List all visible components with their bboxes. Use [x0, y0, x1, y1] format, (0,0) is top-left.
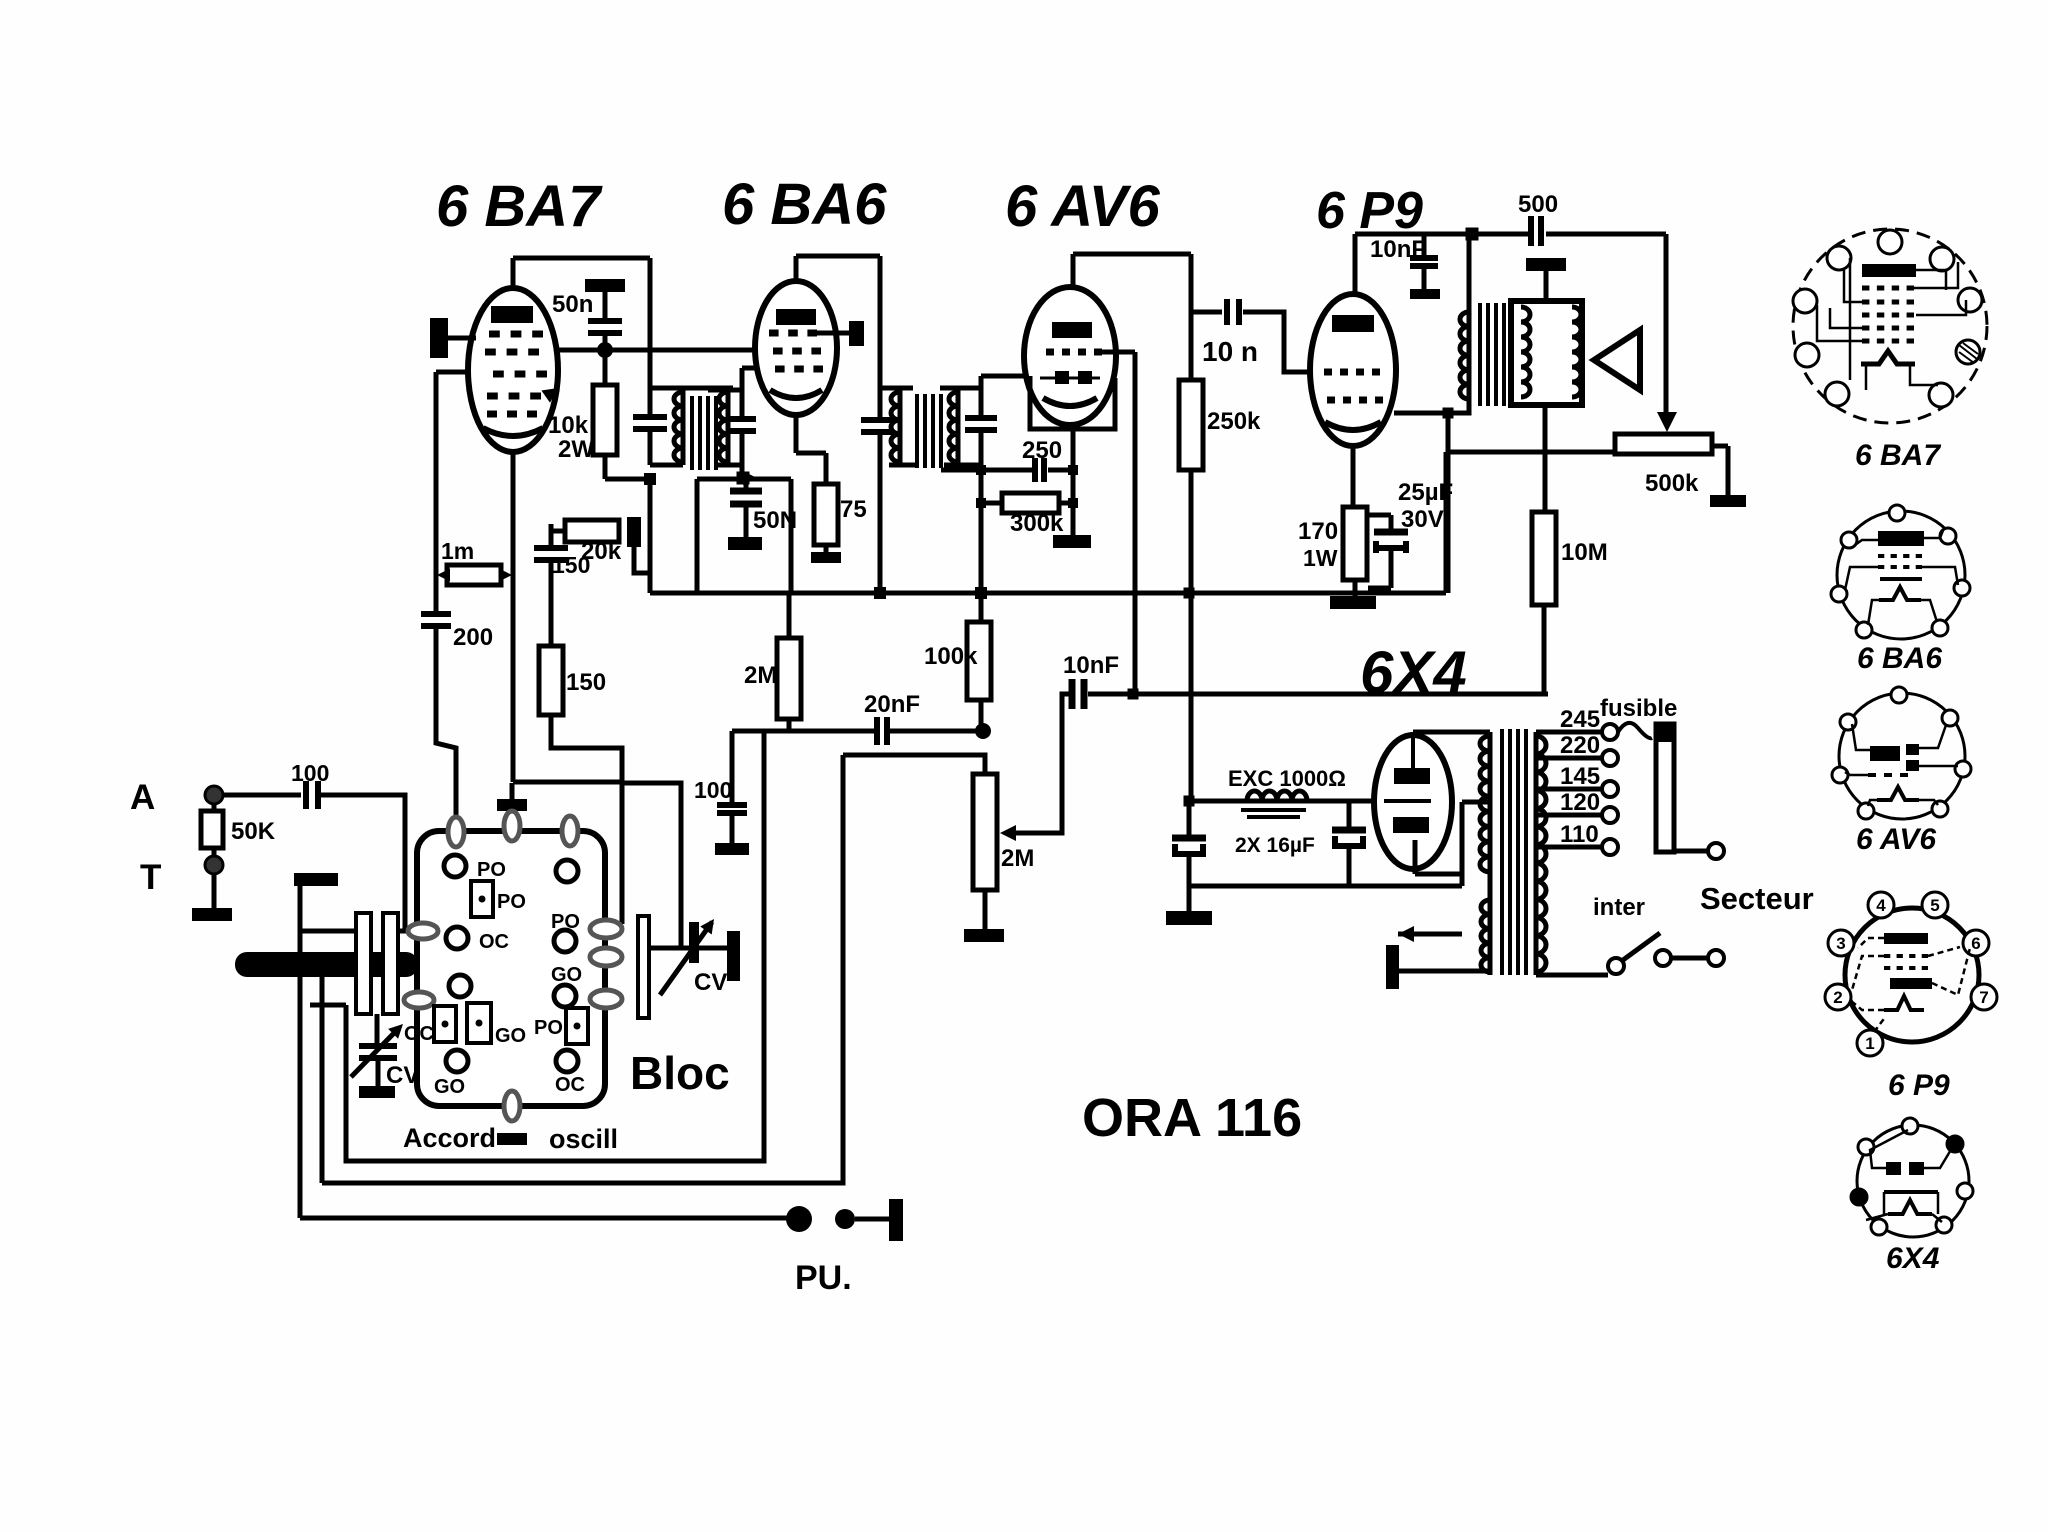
ground below 100 cap: [715, 843, 749, 855]
socket 6BA7 pin 6: [1795, 343, 1819, 367]
wire PT primary bottom: [1536, 973, 1608, 978]
IFT1 right top bar: [708, 388, 742, 393]
socket 6AV6 circle: [1839, 693, 1965, 819]
wire R10k bottom to junction: [603, 455, 608, 479]
switch contact 2: [1655, 950, 1671, 966]
chassis bar: [294, 873, 338, 886]
socket 6AV6 inner wires: [1845, 724, 1958, 775]
socket 6BA6 pin 1: [1889, 505, 1905, 521]
wire V5 top plate lead: [1411, 735, 1415, 768]
ground below R75: [811, 552, 841, 563]
tube V4 plate: [1332, 315, 1374, 332]
wire 50N cap leads: [744, 479, 749, 491]
wire node to R 10k: [603, 350, 608, 385]
svg-text:GO: GO: [495, 1025, 526, 1047]
tube V1 grid row2: [485, 349, 496, 356]
wire bus right edge up: [1444, 452, 1449, 593]
capacitor IFT2 left (tuning): [861, 417, 893, 423]
resistor R 2M: [777, 638, 801, 719]
arrowhead 1m right: [499, 569, 512, 582]
capacitor 16uF #2: [1332, 827, 1366, 834]
wire stub to inner box: [310, 1003, 346, 1008]
wire 50n to node: [603, 333, 608, 350]
arrowhead into 50N node: [743, 471, 757, 485]
socket 6BA6 plate bar: [1878, 531, 1924, 546]
wire V1 cathode down: [511, 452, 516, 782]
socket 6P9 pin 5: [1922, 892, 1948, 918]
PT center tap: [1460, 802, 1465, 874]
svg-text:Bloc: Bloc: [630, 1047, 730, 1099]
ground below T: [192, 908, 232, 921]
capacitor C 20nF: [874, 717, 880, 745]
socket 6X4 pin 6: [1871, 1219, 1887, 1235]
tube V1 grid row4: [487, 393, 498, 400]
wire rod tap down: [320, 977, 325, 1183]
tube V3 plate: [1052, 322, 1092, 338]
PU terminal bar: [889, 1199, 903, 1241]
PU terminal dot2: [835, 1209, 855, 1229]
arrowhead onto pot: [1657, 412, 1677, 432]
svg-text:245: 245: [1560, 706, 1600, 733]
wire pot left lead: [1448, 450, 1615, 455]
socket 6BA6 grid row 1: [1878, 554, 1884, 558]
bloc pin left2: [404, 992, 434, 1008]
svg-text:100: 100: [291, 760, 329, 786]
socket 6BA7 grid row 5: [1862, 339, 1869, 344]
wire middle box y1183: [322, 755, 843, 1183]
osc CV terminal bar: [727, 931, 740, 981]
wire IFT2 feed riser x880: [878, 256, 883, 416]
socket 6X4 cathode bar: [1884, 1190, 1938, 1194]
svg-text:EXC 1000Ω: EXC 1000Ω: [1228, 766, 1346, 791]
tube V5 cathode line: [1384, 799, 1431, 803]
wire AVC riser x436: [434, 372, 439, 611]
svg-text:110: 110: [1560, 821, 1599, 848]
junction 300k left: [976, 498, 986, 508]
socket 6P9 grid row 2: [1884, 966, 1890, 970]
tube V4 grid row1: [1324, 369, 1332, 376]
ground below 2M pot: [964, 929, 1004, 942]
svg-text:CV: CV: [694, 969, 727, 996]
wire IFT2 left cap leads: [878, 416, 883, 420]
wire 500 cap to pot: [1664, 234, 1669, 412]
socket 6X4 circle: [1857, 1125, 1969, 1237]
capacitor C 100 (osc): [717, 802, 747, 808]
PT primary winding: [1536, 736, 1546, 972]
wire IFT1 grid branch: [754, 350, 759, 368]
tube V2 grid row2: [773, 348, 783, 355]
wire OT primary bottom to screen node: [1448, 403, 1469, 413]
socket 6P9 pin 2: [1825, 984, 1851, 1010]
wire OT box bottom down: [1543, 405, 1548, 512]
svg-text:10M: 10M: [1561, 539, 1608, 566]
socket 6AV6 pin 6: [1858, 803, 1874, 819]
capacitor C 10nF (6P9 grid): [1422, 234, 1427, 255]
wire A to 50K: [212, 804, 217, 811]
svg-text:6X4: 6X4: [1360, 639, 1467, 706]
ground at pot right: [1710, 495, 1746, 507]
PT HV winding: [1480, 736, 1490, 872]
frame antenna bar1: [356, 913, 371, 1014]
socket 6P9 grid row 1: [1884, 954, 1890, 958]
switch lever: [1623, 933, 1660, 960]
svg-text:50K: 50K: [231, 818, 276, 845]
bloc hole r3: [554, 985, 576, 1007]
socket 6AV6 pin 7: [1932, 801, 1948, 817]
wire V1 cathode jog right: [513, 780, 622, 785]
ground below V3 cathode: [1053, 535, 1091, 548]
svg-text:2M: 2M: [744, 662, 777, 689]
wire 2M pot bottom: [983, 890, 988, 929]
tube V2 cathode: [770, 390, 822, 398]
socket 6BA7 pin 4: [1793, 289, 1817, 313]
bloc trimmer OC: [434, 1006, 456, 1042]
svg-text:6: 6: [1971, 934, 1980, 953]
terminal bar right of 20k: [627, 517, 641, 547]
tube V3 diode plates: [1055, 371, 1069, 384]
svg-text:T: T: [140, 858, 161, 897]
arrow osc CV: [660, 922, 712, 995]
svg-text:10k: 10k: [548, 412, 589, 439]
svg-text:100k: 100k: [924, 643, 978, 670]
bloc hole r4: [556, 1050, 578, 1072]
junction IFT1 right bottom: [737, 472, 750, 485]
tube V2 grid row3: [775, 366, 785, 373]
PT primary spine: [1534, 732, 1539, 975]
bloc hole mid: [449, 975, 471, 997]
arrow CV accord: [351, 1028, 399, 1077]
resistor R 100k: [967, 622, 991, 700]
svg-text:250k: 250k: [1207, 408, 1261, 435]
svg-text:2M: 2M: [1001, 845, 1034, 872]
capacitor C 200: [421, 611, 451, 617]
grid cap terminal right of V2: [817, 331, 851, 336]
ground below CV accord: [359, 1086, 395, 1098]
tube V5 6X4 envelope: [1374, 735, 1452, 869]
junction x981 on bus: [975, 587, 987, 599]
wire 10n to V4 grid: [1243, 312, 1313, 372]
ground for 10nF: [1410, 289, 1440, 299]
socket 6BA7 pin 8: [1929, 383, 1953, 407]
wire CV to ground: [376, 1058, 381, 1086]
wire R75 to ground: [824, 545, 829, 552]
wire 300k right lead: [1059, 501, 1073, 506]
resistor R 75: [814, 484, 838, 545]
socket 6BA6 circle: [1837, 511, 1965, 639]
wire bar1 to CV: [375, 1014, 380, 1044]
svg-text:300k: 300k: [1010, 510, 1064, 537]
arrowhead 1m left: [437, 569, 450, 582]
wire screen node down to bus: [1446, 413, 1451, 593]
wire 50n node to 6BA6 grid: [605, 348, 776, 353]
svg-text:OC: OC: [479, 931, 509, 953]
wire R150 bottom jog: [551, 715, 622, 782]
capacitor C 10nF (AF): [1069, 679, 1076, 709]
wire 100 cap to frame: [321, 795, 405, 931]
osc CV plate bar: [638, 916, 649, 1018]
svg-text:75: 75: [840, 496, 867, 523]
tube V4 6P9 envelope: [1310, 294, 1396, 446]
svg-text:5: 5: [1930, 896, 1939, 915]
bloc hole r1: [556, 860, 578, 882]
PT tap 120: [1536, 813, 1602, 818]
svg-text:6 P9: 6 P9: [1316, 182, 1423, 240]
wire IFT1 right cap lower lead: [740, 431, 745, 478]
socket 6BA6 pin 2: [1841, 532, 1857, 548]
junction on cathode at 250: [1068, 465, 1078, 475]
wire 10nF left to pot wiper: [1012, 694, 1072, 833]
svg-text:20nF: 20nF: [864, 691, 920, 718]
wire V4 screen to OT bottom: [1394, 411, 1448, 416]
wire 250k node to 10n cap: [1191, 310, 1222, 315]
socket 6BA6 screen bar: [1880, 577, 1922, 581]
OT primary winding: [1460, 312, 1469, 399]
wire osc CV link: [649, 946, 689, 951]
bloc pin bottom: [504, 1091, 520, 1121]
tube V5 plate1: [1394, 768, 1430, 784]
tube V4 cathode: [1325, 422, 1381, 430]
junction x880 on bus: [874, 587, 886, 599]
IFT2 right top bar: [940, 386, 981, 391]
svg-text:10nF: 10nF: [1370, 236, 1426, 263]
wire pot right to ground: [1712, 444, 1728, 449]
socket 6AV6 pin 4: [1832, 767, 1848, 783]
socket 6P9 plate bar: [1884, 933, 1928, 944]
bloc pin right1: [590, 920, 622, 938]
bloc trimmer PO-r: [566, 1008, 588, 1044]
socket 6BA6 pin 3: [1940, 528, 1956, 544]
svg-text:6X4: 6X4: [1886, 1242, 1940, 1275]
svg-text:6 BA7: 6 BA7: [1855, 439, 1941, 472]
bloc hole r2: [554, 930, 576, 952]
tube V5 plate2: [1393, 817, 1429, 833]
ferrite rod: [235, 952, 418, 977]
bloc pin top1: [448, 817, 464, 847]
junction IFT1 left bottom: [644, 473, 656, 485]
ground T over bloc pin2: [497, 799, 527, 811]
tube V2 grid row1: [769, 330, 779, 337]
wire V5 plate to HV top: [1411, 732, 1416, 735]
wire 20nF line: [732, 729, 874, 734]
wire V3 cathode down: [1071, 425, 1076, 535]
socket 6AV6 diode sq2: [1906, 760, 1919, 771]
wire 16uF1 leads: [1187, 801, 1192, 838]
svg-text:PO: PO: [534, 1017, 563, 1039]
wire V2 cathode down: [794, 413, 799, 453]
wire chassis down: [298, 886, 303, 1218]
socket 6BA6 pin 4: [1831, 586, 1847, 602]
socket 6P9 pin 3: [1828, 930, 1854, 956]
socket 6BA7 inner wires: [1914, 262, 1966, 315]
capacitor C 10n: [1224, 299, 1230, 325]
svg-text:100: 100: [694, 777, 732, 803]
socket 6BA6 inner wires: [1845, 528, 1958, 590]
socket 6BA7 cathode: [1861, 351, 1915, 364]
socket 6AV6 pin 5: [1955, 761, 1971, 777]
wire PU line: [300, 1216, 787, 1221]
capacitor IFT1 left (tuning): [633, 414, 667, 420]
potentiometer 2M (volume): [973, 774, 997, 890]
resistor R 300k: [1002, 493, 1059, 513]
socket 6BA6 grid row 2: [1878, 565, 1884, 569]
wire 50N node line: [697, 477, 791, 482]
node junction 50n: [597, 342, 613, 358]
PT heater winding: [1481, 900, 1490, 972]
svg-text:145: 145: [1560, 763, 1600, 790]
wire 10M down to AVC line: [1542, 605, 1547, 694]
EXC coil underline: [1241, 808, 1306, 812]
wire 6P9 plate to top rail: [1353, 234, 1358, 296]
IFT2 left top bar: [880, 386, 913, 391]
svg-text:30V: 30V: [1401, 506, 1444, 533]
wire B+ riser x650: [648, 258, 653, 416]
svg-text:ORA 116: ORA 116: [1082, 1088, 1302, 1148]
wire A to 100 cap: [223, 793, 301, 798]
socket 6BA6 cathode: [1879, 587, 1921, 600]
PT heater bottom wire: [1398, 969, 1490, 974]
wire 6AV6 plate to rail: [1073, 252, 1191, 257]
svg-text:250: 250: [1022, 437, 1062, 464]
socket 6BA6 pin 7: [1932, 620, 1948, 636]
socket 6AV6 pin 3: [1942, 710, 1958, 726]
svg-text:2W: 2W: [558, 436, 594, 463]
socket 6BA7 pin 3: [1930, 247, 1954, 271]
tube V1 6BA7 envelope: [468, 288, 558, 452]
wire 20nF right: [890, 729, 981, 734]
ground below R170: [1330, 596, 1376, 609]
wire AVC line: [1088, 692, 1548, 697]
PT secondary spine: [1488, 732, 1493, 975]
wire 100k bottom: [979, 700, 984, 731]
tube V1 grid row1: [489, 331, 500, 338]
diode return box around V3: [1030, 376, 1115, 429]
wire chassis to frame antenna: [300, 929, 359, 934]
svg-text:6 BA6: 6 BA6: [1857, 642, 1942, 675]
tube V3 grid row: [1046, 349, 1054, 356]
junction IFT2 right bottom: [976, 465, 986, 475]
tube V3 6AV6 envelope: [1024, 287, 1116, 425]
junction screen node: [1443, 408, 1454, 419]
capacitor IFT2 right (tuning): [965, 415, 997, 421]
svg-text:120: 120: [1560, 789, 1600, 816]
bloc hole OC-1: [446, 927, 468, 949]
OT secondary box: [1511, 301, 1582, 405]
socket 6X4 plate sq2: [1909, 1162, 1924, 1175]
resistor R 250k: [1179, 380, 1203, 470]
variable capacitor CV (accord): [359, 1043, 397, 1049]
ground below 16uF1: [1166, 911, 1212, 925]
wire HT minus line: [1189, 884, 1462, 889]
capacitor 16uF #1: [1172, 835, 1206, 842]
wire 6BA7 plate to top rail: [513, 256, 650, 261]
capacitor C 25uF electrolytic: [1366, 513, 1391, 518]
svg-text:6 BA6: 6 BA6: [722, 172, 887, 237]
wire 2M bottom: [787, 719, 792, 731]
speaker triangle: [1594, 330, 1640, 390]
wire 250 cap to cathode: [1048, 468, 1073, 473]
wire pot feed line: [843, 755, 985, 774]
svg-text:3: 3: [1836, 934, 1845, 953]
svg-text:Accord: Accord: [403, 1123, 496, 1153]
bloc pin right2: [590, 948, 622, 966]
svg-text:oscill: oscill: [549, 1124, 618, 1154]
socket 6BA7 grid row 1: [1862, 286, 1869, 291]
PT tap 245: [1536, 730, 1602, 735]
svg-text:20k: 20k: [581, 538, 622, 565]
wire 50N node down to bus right: [789, 479, 794, 593]
ground T under bloc bottom pin: [497, 1133, 527, 1145]
IFT2 right bottom bar: [944, 463, 981, 468]
tube V3 cathode: [1043, 398, 1097, 406]
wire 20k left lead: [551, 529, 565, 534]
osc CV second plate: [689, 922, 699, 963]
wire AVC riser x1135: [1133, 352, 1138, 694]
socket 6AV6 pin 2: [1840, 714, 1856, 730]
svg-text:OC: OC: [555, 1074, 585, 1096]
resistor R 1m: [447, 565, 501, 585]
socket 6BA7 circle: [1793, 229, 1987, 423]
IFT2 left bottom bar: [889, 463, 916, 468]
svg-text:PO: PO: [477, 859, 506, 881]
tube V1 grid row5: [487, 411, 497, 418]
terminal secteur bottom: [1708, 950, 1724, 966]
frame antenna bar2: [383, 913, 398, 1014]
IFT1 right bottom bar: [716, 463, 742, 468]
wire 100 cap to ground: [730, 813, 735, 843]
IFT2 core: [915, 394, 919, 468]
tube V1 plate: [491, 306, 533, 323]
wire junction down to B+ bus: [648, 479, 653, 593]
bloc hole GO-1: [446, 1050, 468, 1072]
capacitor C 100 (antenna): [303, 781, 309, 809]
ground for C 50n: [585, 279, 625, 292]
capacitor C 150 (cathode): [534, 545, 568, 551]
PT core: [1500, 729, 1504, 975]
resistor R 150: [539, 646, 563, 715]
capacitor 50n: [588, 318, 622, 324]
svg-text:1W: 1W: [1303, 545, 1338, 571]
junction top rail at OT: [1466, 228, 1479, 241]
tube V1 grid row3: [493, 371, 504, 378]
wire 6BA6 plate to top rail: [796, 254, 880, 259]
wire 250k riser x1191: [1189, 254, 1194, 380]
wire inner box y1161: [346, 731, 764, 1161]
socket 6BA7 grid row 3: [1862, 313, 1869, 318]
wire PU to bar: [855, 1217, 889, 1222]
wire 20nF line left corner down: [730, 731, 735, 802]
bloc trimmer GO: [467, 1003, 491, 1043]
svg-text:220: 220: [1560, 732, 1600, 759]
bloc trimmer PO: [471, 881, 493, 917]
wire osc CV to terminal: [699, 946, 727, 951]
socket 6X4 pin 2: [1858, 1139, 1874, 1155]
socket 6BA7 pin 5: [1958, 288, 1982, 312]
arrowhead onto 2M pot wiper: [1000, 825, 1016, 841]
capacitor IFT1 right (tuning): [728, 416, 756, 422]
wire 50N node down to bus left: [695, 479, 700, 593]
capacitor C 250: [1032, 458, 1038, 482]
IFT2 primary winding: [891, 392, 900, 462]
fuse wavy wire: [1618, 723, 1652, 738]
svg-text:150: 150: [566, 669, 606, 696]
junction bus x1189: [1184, 588, 1195, 599]
wire IFT2 right top to 6AV6 diode box: [981, 374, 1030, 379]
resistor R 170 1W: [1343, 507, 1367, 580]
socket 6AV6 pin 1: [1891, 687, 1907, 703]
socket 6BA7 pin 1: [1878, 230, 1902, 254]
ground T above OT box: [1526, 258, 1566, 271]
socket 6BA6 pin 6: [1856, 622, 1872, 638]
